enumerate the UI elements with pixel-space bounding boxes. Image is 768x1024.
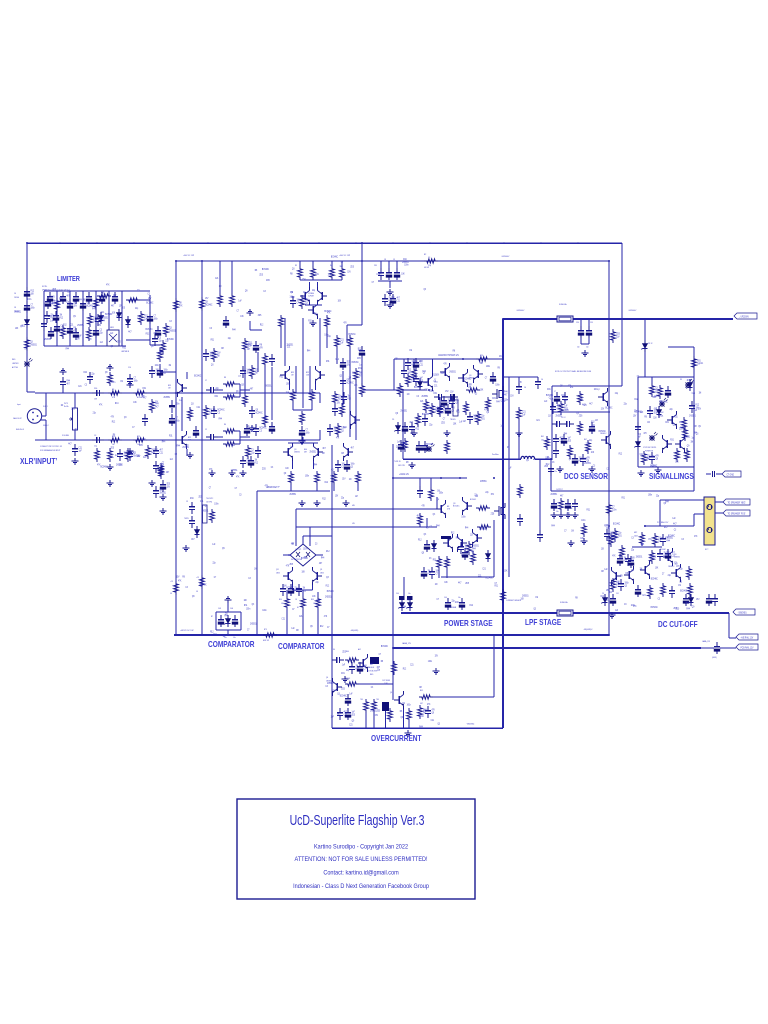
svg-text:R12: R12 [112,421,116,423]
svg-text:10K: 10K [541,439,545,441]
svg-text:1M: 1M [402,703,405,705]
svg-text:1M: 1M [407,394,410,396]
svg-text:47K: 47K [643,433,647,435]
svg-text:ZD5: ZD5 [377,710,381,712]
svg-text:Q3: Q3 [548,415,551,417]
svg-text:CT GND: CT GND [727,475,735,477]
svg-text:1M: 1M [678,585,681,587]
svg-text:1M: 1M [284,586,287,588]
svg-text:10K: 10K [306,375,310,377]
svg-text:100n: 100n [31,307,36,309]
svg-text:1M: 1M [349,479,352,481]
svg-text:TLE2 NTC: TLE2 NTC [206,498,214,500]
svg-text:C7: C7 [235,488,238,490]
svg-text:DCO SENSOR: DCO SENSOR [564,471,609,481]
svg-text:R31: R31 [586,509,590,511]
svg-text:1M: 1M [223,636,226,638]
svg-text:2N5551: 2N5551 [689,416,696,418]
svg-text:C9: C9 [393,259,395,261]
svg-text:15V: 15V [601,409,605,411]
svg-text:C3: C3 [263,291,266,293]
svg-text:C51: C51 [616,593,619,595]
svg-text:BC546C: BC546C [470,499,477,501]
svg-text:R12: R12 [469,605,473,607]
svg-text:R12: R12 [303,590,307,592]
svg-text:2N5551: 2N5551 [250,623,257,625]
svg-text:15V: 15V [217,352,221,354]
svg-text:10K: 10K [285,468,289,470]
svg-text:R8: R8 [217,355,220,357]
svg-text:C8: C8 [14,307,16,309]
svg-text:R12: R12 [137,436,140,438]
svg-text:C?: C? [554,391,556,393]
svg-text:100n: 100n [303,548,308,550]
svg-text:Q9: Q9 [395,413,398,415]
svg-text:LIMITER IN: LIMITER IN [121,351,130,353]
svg-text:1uF: 1uF [522,414,526,416]
svg-text:Q9: Q9 [649,592,652,594]
svg-text:1M: 1M [435,584,438,586]
svg-text:Q9: Q9 [526,460,529,462]
svg-text:4K7: 4K7 [166,472,170,474]
svg-text:15V: 15V [646,459,650,461]
svg-text:R8: R8 [497,368,500,370]
svg-text:Q9: Q9 [151,346,154,348]
svg-text:15V: 15V [337,402,341,404]
svg-text:C48: C48 [218,608,221,610]
svg-text:22p: 22p [669,409,673,411]
svg-text:1uF: 1uF [352,711,356,713]
svg-text:1M: 1M [348,395,351,397]
svg-text:C3: C3 [655,387,658,389]
svg-text:4K7: 4K7 [458,582,462,584]
svg-text:Q3: Q3 [625,585,628,587]
svg-text:100n: 100n [176,420,181,422]
svg-text:15V: 15V [148,298,152,300]
svg-text:47K: 47K [432,709,436,711]
svg-text:22p: 22p [312,290,316,292]
svg-text:1uF: 1uF [212,544,216,546]
svg-text:(GND): (GND) [712,657,717,659]
svg-text:R12: R12 [348,398,352,400]
svg-text:4K7: 4K7 [68,443,72,445]
svg-text:1uF: 1uF [179,400,183,402]
svg-text:C3: C3 [315,544,318,546]
svg-text:2N5551: 2N5551 [30,344,37,346]
svg-text:47K: 47K [106,285,110,287]
svg-text:R44: R44 [67,380,71,382]
svg-text:Q9: Q9 [241,385,244,387]
svg-text:Q9: Q9 [352,720,355,722]
svg-text:22p: 22p [213,563,217,565]
svg-text:15V: 15V [347,272,351,274]
svg-text:R31: R31 [606,528,610,530]
svg-text:R31: R31 [146,333,150,335]
svg-text:ZD5: ZD5 [110,447,114,449]
svg-text:1uF: 1uF [568,437,572,439]
svg-text:NOTE:: NOTE: [42,286,48,288]
svg-text:15V: 15V [155,401,159,403]
svg-text:R8: R8 [89,339,92,341]
svg-text:Q3: Q3 [679,581,682,583]
svg-text:BC546C: BC546C [262,269,270,271]
svg-text:10K: 10K [288,555,292,557]
svg-text:JAMA_12V: JAMA_12V [402,642,412,645]
svg-text:R8: R8 [426,528,429,530]
svg-text:2N5551: 2N5551 [309,451,316,453]
svg-text:C21: C21 [536,420,540,422]
svg-text:ZD5: ZD5 [544,466,548,468]
svg-text:R12: R12 [451,533,455,535]
svg-text:10K: 10K [468,387,472,389]
svg-text:R31: R31 [315,274,319,276]
svg-text:Q9: Q9 [245,290,248,292]
svg-text:C2: C2 [205,429,207,431]
svg-text:100n: 100n [625,582,630,584]
svg-text:R12: R12 [546,464,550,466]
svg-text:2N5551: 2N5551 [479,529,486,531]
svg-text:100n: 100n [428,408,433,410]
svg-text:15V: 15V [205,298,209,300]
svg-text:UcD-Superlite Flagship Ver.3: UcD-Superlite Flagship Ver.3 [290,811,425,828]
svg-text:R61: R61 [541,436,544,438]
svg-text:C21: C21 [160,452,164,454]
svg-text:1M: 1M [77,338,80,340]
svg-text:HNF 1W: HNF 1W [263,640,269,642]
svg-text:ZD5: ZD5 [121,308,125,310]
svg-text:Q9: Q9 [222,548,225,550]
svg-text:OVERCURRENT: OVERCURRENT [371,733,422,743]
svg-text:2N5551: 2N5551 [202,511,209,513]
svg-text:Q11: Q11 [276,569,279,571]
svg-text:Q9: Q9 [432,712,435,714]
svg-text:C8: C8 [384,259,386,261]
svg-text:RED: RED [12,359,16,361]
svg-text:Q6: Q6 [326,677,328,679]
svg-text:R12: R12 [403,669,407,671]
svg-text:C21: C21 [420,364,424,366]
svg-text:+JAMA 12V: +JAMA 12V [399,473,409,476]
svg-text:BC546C: BC546C [668,536,676,538]
svg-text:1uF: 1uF [475,496,479,498]
svg-text:1uF: 1uF [604,569,608,571]
svg-text:15V: 15V [696,599,700,601]
svg-text:R12: R12 [325,482,329,484]
svg-text:C3: C3 [639,434,642,436]
svg-text:15V: 15V [137,456,141,458]
svg-text:100n: 100n [27,299,32,301]
svg-text:+48/12V DC 1SP: +48/12V DC 1SP [266,486,280,488]
svg-text:1M: 1M [352,373,355,375]
svg-text:M6?: M6? [634,532,637,534]
svg-text:R44: R44 [564,434,568,436]
svg-text:C7: C7 [364,668,367,670]
svg-text:C3: C3 [417,396,420,398]
svg-text:LIMITER: LIMITER [57,276,80,284]
svg-text:22p: 22p [316,582,320,584]
svg-text:C3: C3 [85,384,88,386]
svg-text:15V: 15V [435,655,439,657]
svg-text:1M: 1M [255,459,258,461]
svg-text:Q9: Q9 [192,596,195,598]
svg-text:4K7: 4K7 [351,447,355,449]
svg-text:R8: R8 [83,300,86,302]
svg-text:R12: R12 [422,371,426,373]
svg-text:Q3: Q3 [437,723,440,725]
svg-text:5K: 5K [196,591,199,593]
svg-text:BC546C: BC546C [486,578,494,580]
svg-text:4K7: 4K7 [304,452,307,454]
svg-text:10K: 10K [521,598,525,600]
svg-text:4K7: 4K7 [155,406,159,408]
svg-text:15V: 15V [51,296,55,298]
svg-text:R44: R44 [66,348,70,350]
svg-text:XA04-13-L1P: XA04-13-L1P [13,417,22,420]
svg-text:1M: 1M [112,444,115,446]
svg-text:Q9: Q9 [569,459,572,461]
svg-text:1M: 1M [60,314,63,316]
svg-text:R8: R8 [507,447,510,449]
svg-text:R44: R44 [162,442,166,444]
svg-text:R7: R7 [211,616,213,618]
svg-text:R8: R8 [182,576,185,578]
svg-text:R8: R8 [255,270,258,272]
svg-text:1M: 1M [291,544,294,546]
svg-text:100n: 100n [563,400,568,402]
svg-text:R8: R8 [694,426,697,428]
svg-text:4K7: 4K7 [128,331,132,333]
svg-text:RT3: RT3 [264,629,267,631]
svg-text:1uF: 1uF [564,405,568,407]
svg-text:100n: 100n [262,610,267,612]
svg-text:R44: R44 [436,526,440,528]
svg-text:BC546C: BC546C [205,304,213,306]
svg-text:C3: C3 [239,495,242,497]
svg-text:100n: 100n [341,427,346,429]
svg-text:1M: 1M [699,393,702,395]
svg-text:100n: 100n [305,299,310,301]
svg-text:2N5551: 2N5551 [116,464,123,466]
svg-text:15V: 15V [74,305,78,307]
svg-text:2N5551: 2N5551 [294,452,300,454]
svg-text:C3: C3 [658,598,661,600]
svg-text:ZD5: ZD5 [441,422,445,424]
svg-text:2N5551: 2N5551 [551,494,558,496]
svg-text:100n: 100n [351,463,356,465]
svg-text:C21: C21 [70,324,74,326]
svg-text:C9: C9 [186,501,188,503]
svg-text:100n: 100n [545,457,550,459]
svg-text:100K: 100K [634,535,639,537]
svg-text:15V: 15V [375,715,379,717]
svg-text:R8: R8 [179,302,182,304]
svg-text:1M: 1M [291,375,294,377]
svg-text:C7: C7 [176,417,179,419]
svg-text:47K: 47K [111,416,115,418]
svg-text:47K: 47K [127,321,131,323]
svg-text:R31: R31 [670,439,674,441]
svg-text:22p: 22p [668,575,672,577]
svg-text:R31: R31 [326,361,330,363]
svg-text:ZD5: ZD5 [579,415,583,417]
svg-text:Q3: Q3 [205,505,208,507]
svg-text:Q9: Q9 [422,553,425,555]
svg-text:C21: C21 [79,447,83,449]
svg-text:ZD 12: ZD 12 [648,343,652,345]
svg-text:Kartino Surodipo - Copyright J: Kartino Surodipo - Copyright Jan 2022 [314,843,409,851]
svg-text:R31: R31 [341,673,345,675]
svg-text:47K: 47K [447,509,451,511]
svg-text:−58(GND)V: −58(GND)V [583,629,593,631]
svg-text:BC546C: BC546C [426,444,434,446]
svg-text:10K: 10K [31,293,35,295]
svg-text:Q3: Q3 [30,341,33,343]
svg-text:R8: R8 [322,453,325,455]
svg-text:1uF: 1uF [508,467,512,469]
svg-text:R8: R8 [112,389,114,391]
svg-text:1uF: 1uF [340,266,344,268]
svg-text:15V: 15V [255,369,259,371]
svg-text:C3: C3 [624,604,627,606]
svg-text:47K: 47K [583,405,587,407]
svg-text:2N5551: 2N5551 [636,556,643,558]
svg-text:Q9: Q9 [105,372,108,374]
svg-text:100n: 100n [461,516,466,518]
svg-text:100n: 100n [612,509,617,511]
svg-text:C7: C7 [443,419,446,421]
svg-text:C3: C3 [428,257,430,259]
svg-text:4K7: 4K7 [160,449,164,451]
svg-text:ZD5: ZD5 [289,564,293,566]
svg-text:10K: 10K [453,424,457,426]
svg-text:R12: R12 [60,317,64,319]
svg-text:C21: C21 [349,724,353,726]
svg-text:BC546C: BC546C [546,395,554,397]
svg-text:1M: 1M [168,388,171,390]
svg-text:NC?: NC? [705,549,708,551]
svg-text:4K7: 4K7 [409,422,413,424]
svg-text:Q9: Q9 [601,548,604,550]
svg-text:1M: 1M [550,399,553,401]
svg-text:OCP SIGN: OCP SIGN [382,680,391,682]
svg-text:2N5551: 2N5551 [169,330,176,332]
svg-text:C4E: C4E [230,608,234,610]
svg-text:ZD5: ZD5 [266,280,270,282]
svg-text:R4: R4 [330,265,332,267]
svg-text:Rv10k: Rv10k [64,406,69,408]
svg-text:100n: 100n [654,396,659,398]
svg-text:C35: C35 [590,322,593,324]
svg-text:C21: C21 [200,501,204,503]
svg-text:1M: 1M [303,587,306,589]
svg-text:D4: D4 [333,649,335,651]
svg-text:4K7: 4K7 [111,305,115,307]
svg-text:22p: 22p [94,445,97,447]
svg-text:2N5551: 2N5551 [584,463,591,465]
svg-text:10K: 10K [131,452,135,454]
svg-text:ZD5: ZD5 [258,315,262,317]
svg-text:100n: 100n [404,264,409,266]
svg-text:10n: 10n [556,511,559,513]
svg-text:R67: R67 [584,439,587,441]
svg-text:1M: 1M [409,350,412,352]
svg-text:CURRENT SENSOR: CURRENT SENSOR [506,600,522,602]
svg-text:1uF: 1uF [331,717,335,719]
svg-text:BC546C: BC546C [301,558,309,560]
svg-text:FUSE 6A: FUSE 6A [560,601,568,604]
svg-text:Contact: kartino.id@gmail.com: Contact: kartino.id@gmail.com [323,869,398,877]
svg-text:−58(GND): −58(GND) [738,613,747,615]
svg-text:1uF: 1uF [544,401,548,403]
svg-text:OUTPUT: OUTPUT [556,489,563,491]
svg-text:22p: 22p [656,495,660,497]
svg-text:ZD5: ZD5 [341,688,345,690]
svg-text:BC546C: BC546C [660,549,667,551]
svg-text:Q3: Q3 [211,364,214,366]
svg-text:2N5551: 2N5551 [265,385,272,387]
svg-text:R44: R44 [420,716,424,718]
svg-text:C34: C34 [576,322,579,324]
svg-text:10K: 10K [112,313,116,315]
svg-text:C21: C21 [143,457,147,459]
svg-text:Q3: Q3 [696,433,699,435]
svg-text:R44: R44 [686,609,690,611]
svg-text:2N5551: 2N5551 [14,311,21,313]
svg-text:4K7: 4K7 [247,349,251,351]
svg-text:C3: C3 [185,587,188,589]
svg-text:47K: 47K [57,304,61,306]
svg-text:22p: 22p [346,670,350,672]
svg-text:2N5551: 2N5551 [163,397,170,399]
svg-text:1M: 1M [595,420,598,422]
svg-text:R8: R8 [290,274,293,276]
svg-text:→UF2000V: →UF2000V [500,256,510,258]
svg-text:R31: R31 [665,422,669,424]
svg-text:100n: 100n [246,608,251,610]
svg-text:47K: 47K [324,616,328,618]
svg-text:2N5401C: 2N5401C [668,566,675,568]
svg-text:C7: C7 [154,315,157,317]
svg-text:R55: R55 [311,599,314,601]
svg-text:2N5551: 2N5551 [522,595,529,597]
svg-text:Q3: Q3 [339,376,342,378]
svg-text:R8: R8 [575,597,578,599]
svg-text:ATTENTION: NOT FOR SALE UNLESS: ATTENTION: NOT FOR SALE UNLESS PERMITTED… [294,856,427,864]
svg-text:ZD1: ZD1 [374,265,377,267]
svg-text:15V: 15V [633,416,637,418]
svg-text:100n: 100n [111,382,116,384]
svg-text:Q9: Q9 [256,409,259,411]
svg-text:Q3: Q3 [191,403,194,405]
svg-text:22p: 22p [251,452,255,454]
svg-text:10n: 10n [586,346,589,348]
svg-text:2N5551: 2N5551 [231,470,238,472]
svg-text:2N5551: 2N5551 [555,415,562,417]
svg-text:22p: 22p [615,393,619,395]
svg-text:BC546C: BC546C [218,409,226,411]
svg-text:Q3: Q3 [631,570,634,572]
svg-text:Q3: Q3 [305,302,308,304]
svg-text:C7: C7 [306,429,309,431]
svg-text:100n: 100n [407,704,412,706]
svg-text:R12: R12 [609,592,613,594]
svg-text:ZD5: ZD5 [568,440,572,442]
svg-text:7K5: 7K5 [360,699,363,701]
svg-text:5681 17B: 5681 17B [398,465,405,467]
svg-text:2N5551: 2N5551 [160,492,167,494]
svg-text:2N5551: 2N5551 [327,683,334,685]
svg-text:FUSE 6A: FUSE 6A [559,303,567,306]
